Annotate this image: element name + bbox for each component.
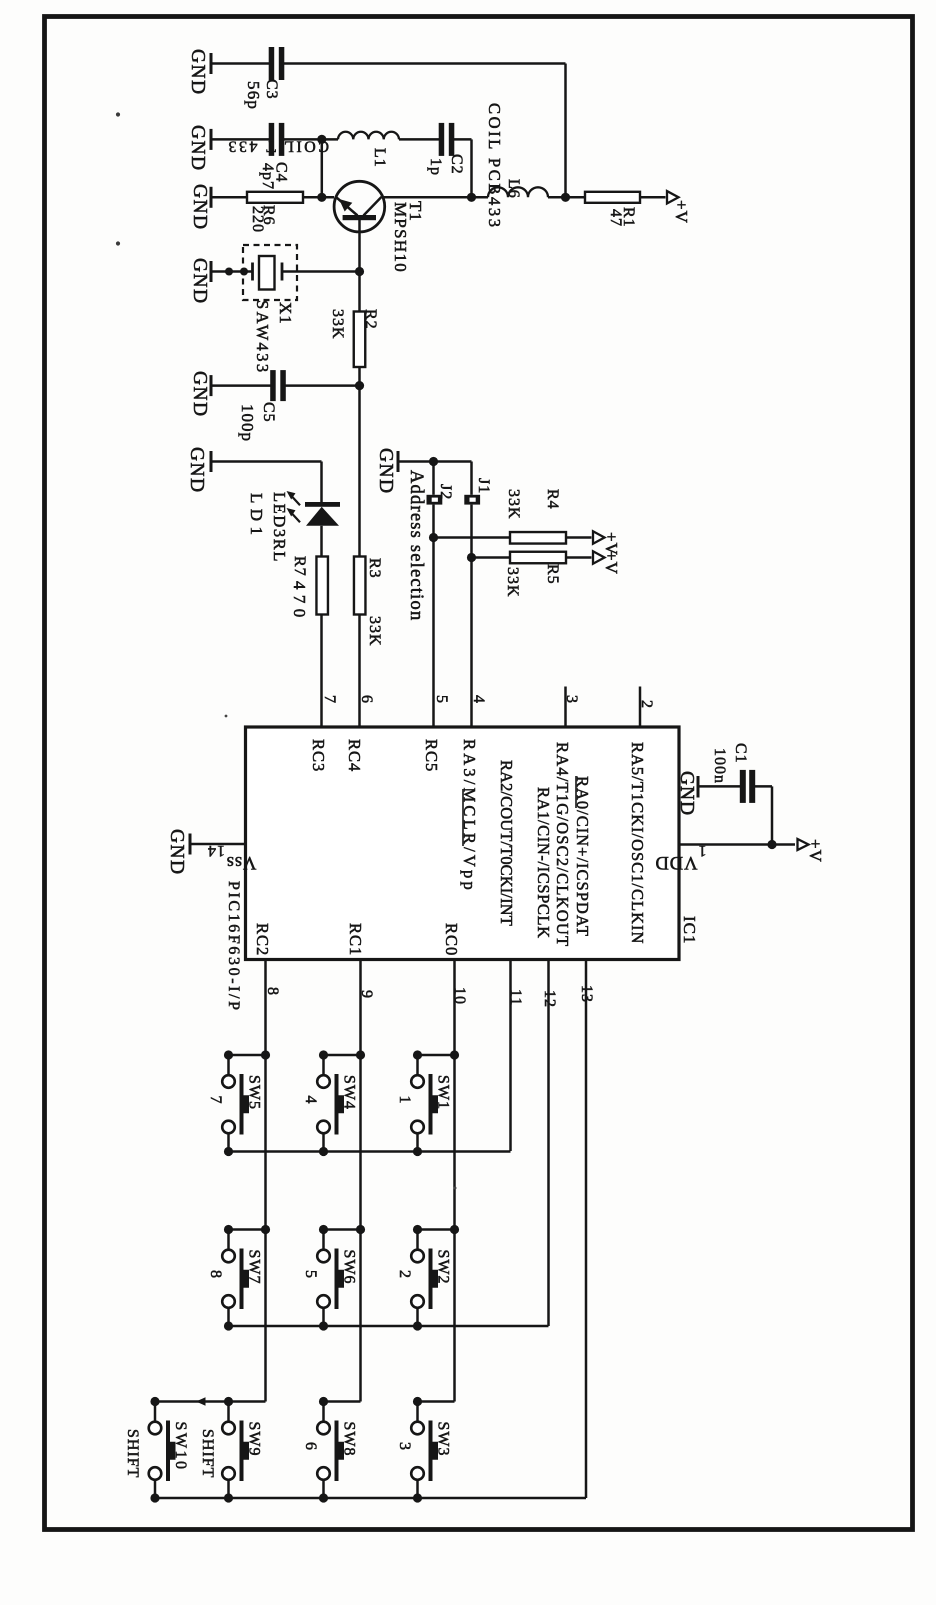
svg-text:VDD: VDD — [654, 852, 697, 872]
svg-text:SW3: SW3 — [435, 1422, 452, 1457]
svg-text:5: 5 — [433, 695, 450, 704]
svg-text:SW1: SW1 — [435, 1075, 452, 1110]
svg-text:+V: +V — [672, 200, 691, 224]
svg-text:COIL PCB433: COIL PCB433 — [485, 103, 504, 230]
svg-text:11: 11 — [507, 989, 524, 1006]
svg-text:3: 3 — [396, 1442, 413, 1451]
svg-text:J1: J1 — [475, 478, 492, 494]
svg-text:SHIFT: SHIFT — [199, 1429, 216, 1478]
svg-text:SW6: SW6 — [341, 1250, 358, 1285]
svg-text:X1: X1 — [276, 302, 295, 325]
svg-text:33K: 33K — [329, 309, 346, 340]
svg-text:100n: 100n — [711, 748, 728, 784]
svg-text:RC5: RC5 — [422, 739, 441, 772]
svg-text:LED3RL: LED3RL — [270, 492, 289, 563]
svg-text:PIC16F630-I/P: PIC16F630-I/P — [225, 881, 242, 1013]
svg-text:SW5: SW5 — [246, 1075, 263, 1110]
svg-text:GND: GND — [189, 184, 210, 230]
svg-text:+V: +V — [602, 551, 621, 575]
svg-text:SW8: SW8 — [341, 1422, 358, 1457]
svg-text:GND: GND — [189, 258, 210, 304]
svg-text:J2: J2 — [437, 484, 454, 500]
svg-text:56p: 56p — [244, 81, 263, 110]
svg-text:Vss: Vss — [226, 852, 257, 872]
svg-text:8: 8 — [207, 1270, 224, 1279]
svg-text:RA5/T1CKI/OSC1/CLKIN: RA5/T1CKI/OSC1/CLKIN — [628, 742, 647, 944]
svg-text:4: 4 — [302, 1096, 319, 1105]
svg-text:C3: C3 — [263, 79, 280, 100]
svg-text:RC3: RC3 — [309, 739, 328, 772]
svg-text:4: 4 — [470, 695, 487, 704]
svg-text:100p: 100p — [238, 404, 257, 442]
svg-text:SW7: SW7 — [246, 1250, 263, 1285]
svg-text:MPSH10: MPSH10 — [391, 202, 410, 273]
svg-text:RA2/COUT/T0CKI/INT: RA2/COUT/T0CKI/INT — [497, 760, 516, 926]
svg-text:3: 3 — [563, 695, 580, 704]
svg-text:470: 470 — [290, 581, 309, 623]
svg-text:12: 12 — [541, 990, 558, 1008]
svg-text:L1: L1 — [371, 148, 388, 168]
svg-text:7: 7 — [207, 1096, 224, 1105]
svg-text:RA1/CIN-/ICSPCLK: RA1/CIN-/ICSPCLK — [534, 787, 553, 939]
svg-text:RC0: RC0 — [442, 923, 461, 956]
svg-text:R4: R4 — [544, 489, 561, 510]
svg-text:C1: C1 — [732, 743, 749, 764]
svg-text:4p7: 4p7 — [259, 163, 276, 190]
svg-text:SW2: SW2 — [435, 1250, 452, 1285]
svg-text:SHIFT: SHIFT — [124, 1429, 141, 1478]
svg-text:+V: +V — [806, 839, 825, 863]
svg-text:LD1: LD1 — [247, 493, 266, 540]
svg-text:R2: R2 — [362, 309, 379, 330]
svg-text:6: 6 — [358, 695, 375, 704]
svg-text:L6: L6 — [505, 179, 522, 199]
svg-text:GND: GND — [676, 771, 697, 816]
svg-text:8: 8 — [264, 987, 281, 996]
svg-text:10: 10 — [451, 987, 468, 1005]
svg-text:2: 2 — [396, 1270, 413, 1279]
svg-text:RC2: RC2 — [253, 923, 272, 956]
svg-text:GND: GND — [187, 49, 208, 95]
svg-text:C2: C2 — [448, 154, 465, 175]
svg-text:R3: R3 — [366, 558, 383, 579]
svg-text:33K: 33K — [366, 616, 383, 647]
svg-text:GND: GND — [166, 829, 187, 875]
svg-text:2: 2 — [638, 700, 655, 709]
svg-text:SW10: SW10 — [172, 1422, 189, 1472]
svg-text:33K: 33K — [504, 567, 521, 598]
svg-text:220: 220 — [249, 206, 266, 233]
svg-text:R5: R5 — [544, 564, 561, 585]
svg-text:RA4/T1G/OSC2/CLKOUT: RA4/T1G/OSC2/CLKOUT — [553, 742, 572, 947]
svg-text:9: 9 — [358, 990, 375, 999]
svg-text:SW9: SW9 — [246, 1422, 263, 1457]
svg-text:R7: R7 — [291, 556, 308, 577]
svg-text:6: 6 — [302, 1442, 319, 1451]
svg-text:5: 5 — [302, 1270, 319, 1279]
svg-text:14: 14 — [207, 842, 225, 859]
svg-text:RC4: RC4 — [345, 739, 364, 772]
svg-text:33K: 33K — [505, 489, 522, 520]
svg-text:GND: GND — [375, 448, 396, 494]
svg-text:47: 47 — [607, 209, 624, 227]
svg-text:1: 1 — [698, 842, 707, 859]
svg-text:IC1: IC1 — [680, 916, 699, 945]
svg-text:GND: GND — [187, 125, 208, 171]
svg-text:1p: 1p — [427, 158, 444, 176]
svg-text:SW4: SW4 — [341, 1075, 358, 1110]
svg-text:1: 1 — [396, 1096, 413, 1105]
svg-text:Address selection: Address selection — [406, 470, 426, 621]
svg-text:13: 13 — [578, 985, 595, 1003]
svg-text:GND: GND — [186, 447, 207, 493]
svg-text:C5: C5 — [260, 402, 277, 423]
svg-text:COIL T 433: COIL T 433 — [226, 138, 329, 155]
svg-text:GND: GND — [189, 371, 210, 417]
svg-text:RC1: RC1 — [346, 923, 365, 956]
svg-text:SAW433: SAW433 — [253, 300, 272, 375]
svg-text:7: 7 — [321, 695, 338, 704]
